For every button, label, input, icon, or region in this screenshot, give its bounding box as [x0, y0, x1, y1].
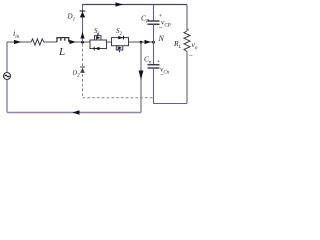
wire: capacitor rail from top rail down to Cp [153, 5, 155, 22]
wire: right rail top segment [186, 5, 188, 32]
wire: D1 branch (node A up to top rail) [82, 4, 84, 42]
current arrow toward node N [145, 40, 152, 44]
diode D1 [80, 11, 86, 17]
diode D2 [80, 67, 85, 73]
current arrow on bottom wire (pointing left) [72, 110, 79, 115]
current arrow on midpoint branch (pointing down) [139, 71, 144, 81]
wire: midpoint branch down to bottom wire [140, 42, 142, 113]
svg-text:−: − [189, 52, 194, 60]
wire: S1 to S2 [107, 41, 112, 43]
svg-text:L: L [58, 46, 65, 58]
label +vCp- [159, 14, 164, 32]
current arrow i_in [14, 40, 22, 44]
wire: left rail from input corner down to AC source [6, 42, 8, 72]
wire: top rail [83, 4, 188, 6]
wire: inductor to node A [69, 41, 90, 43]
svg-text:+: + [186, 28, 190, 34]
wire: right rail bottom segment [186, 52, 188, 104]
inductor L (square humps) [57, 38, 69, 42]
resistor (input impedance, zigzag) [31, 39, 44, 45]
wire: resistor to inductor [44, 41, 57, 43]
node N junction dot [152, 41, 155, 44]
current arrow on D1 branch (pointing up) [80, 32, 84, 39]
capacitor Cn [148, 65, 160, 68]
ac source Vin [4, 73, 11, 80]
switch S2 [112, 36, 129, 53]
wire: bottom return wire [7, 112, 141, 114]
wire: input horizontal wire (source to resistor) [7, 41, 31, 43]
wire: Cn down and right to bottom-right corner [154, 68, 188, 104]
switch S1 [90, 33, 107, 50]
svg-text:N: N [158, 34, 165, 43]
capacitor Cp [148, 21, 160, 24]
node B junction dot [140, 41, 143, 44]
current arrow on top rail [116, 2, 124, 6]
wire: S2 to node N rail [129, 41, 154, 43]
wire: dashed vertical (D2 branch) [82, 44, 84, 98]
current arrow after inductor [70, 40, 77, 44]
resistor RL (vertical zigzag) [184, 31, 190, 52]
node A junction dot [81, 41, 84, 44]
wire: left rail from AC source down to bottom-left corner [6, 80, 8, 113]
wire: dashed horizontal to capacitor rail [83, 97, 154, 99]
wire: Cp to node N [153, 24, 155, 65]
